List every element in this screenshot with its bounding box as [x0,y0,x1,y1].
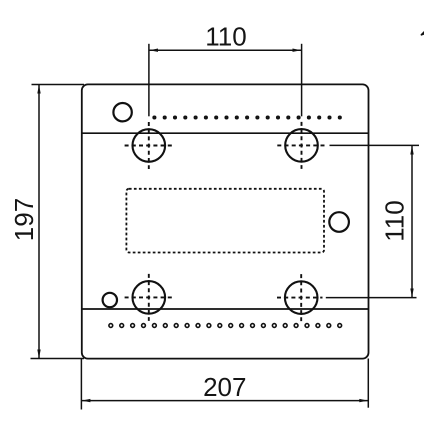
top perforation dot row [153,116,341,118]
bottom fold line [82,308,369,310]
bottom dimension extension line right [367,359,369,408]
svg-text:207: 207 [203,372,246,402]
right dimension arrow top [410,146,413,155]
left dimension extension line bottom [31,358,85,360]
bottom dimension line [82,400,368,402]
cropped digit at top right edge [421,31,424,36]
mounting hole bottom-left [125,274,173,321]
mounting hole bottom-right [277,274,323,321]
bottom dimension extension line left [80,359,82,410]
svg-text:110: 110 [380,200,410,241]
plate outline [82,84,369,358]
top dimension arrow left [149,49,158,52]
dashed cutout rectangle [126,189,324,253]
bottom dimension arrow right [359,399,368,402]
hole bottom-left small round [103,293,117,307]
right dimension leader top [330,144,420,146]
mounting hole top-left [125,122,173,169]
left dimension extension line top [32,84,85,86]
right dimension arrow bottom [410,289,413,298]
top dimension extension line left [148,44,150,117]
svg-text:197: 197 [9,198,39,241]
bottom dimension arrow left [82,399,91,402]
right dimension line [411,146,413,297]
top dimension arrow right [293,49,302,52]
left dimension line [38,85,40,358]
right dimension leader bottom [326,297,417,299]
left dimension arrow bottom [37,350,40,359]
left dimension arrow top [37,85,40,94]
svg-text:110: 110 [205,22,246,52]
top dimension extension line right [301,44,303,117]
top fold line [82,132,369,134]
hole right round [329,212,349,232]
bottom perforation dot row [109,324,342,328]
mounting hole top-right [277,122,327,169]
hole top-left round [113,103,131,121]
top dimension line [150,49,302,51]
